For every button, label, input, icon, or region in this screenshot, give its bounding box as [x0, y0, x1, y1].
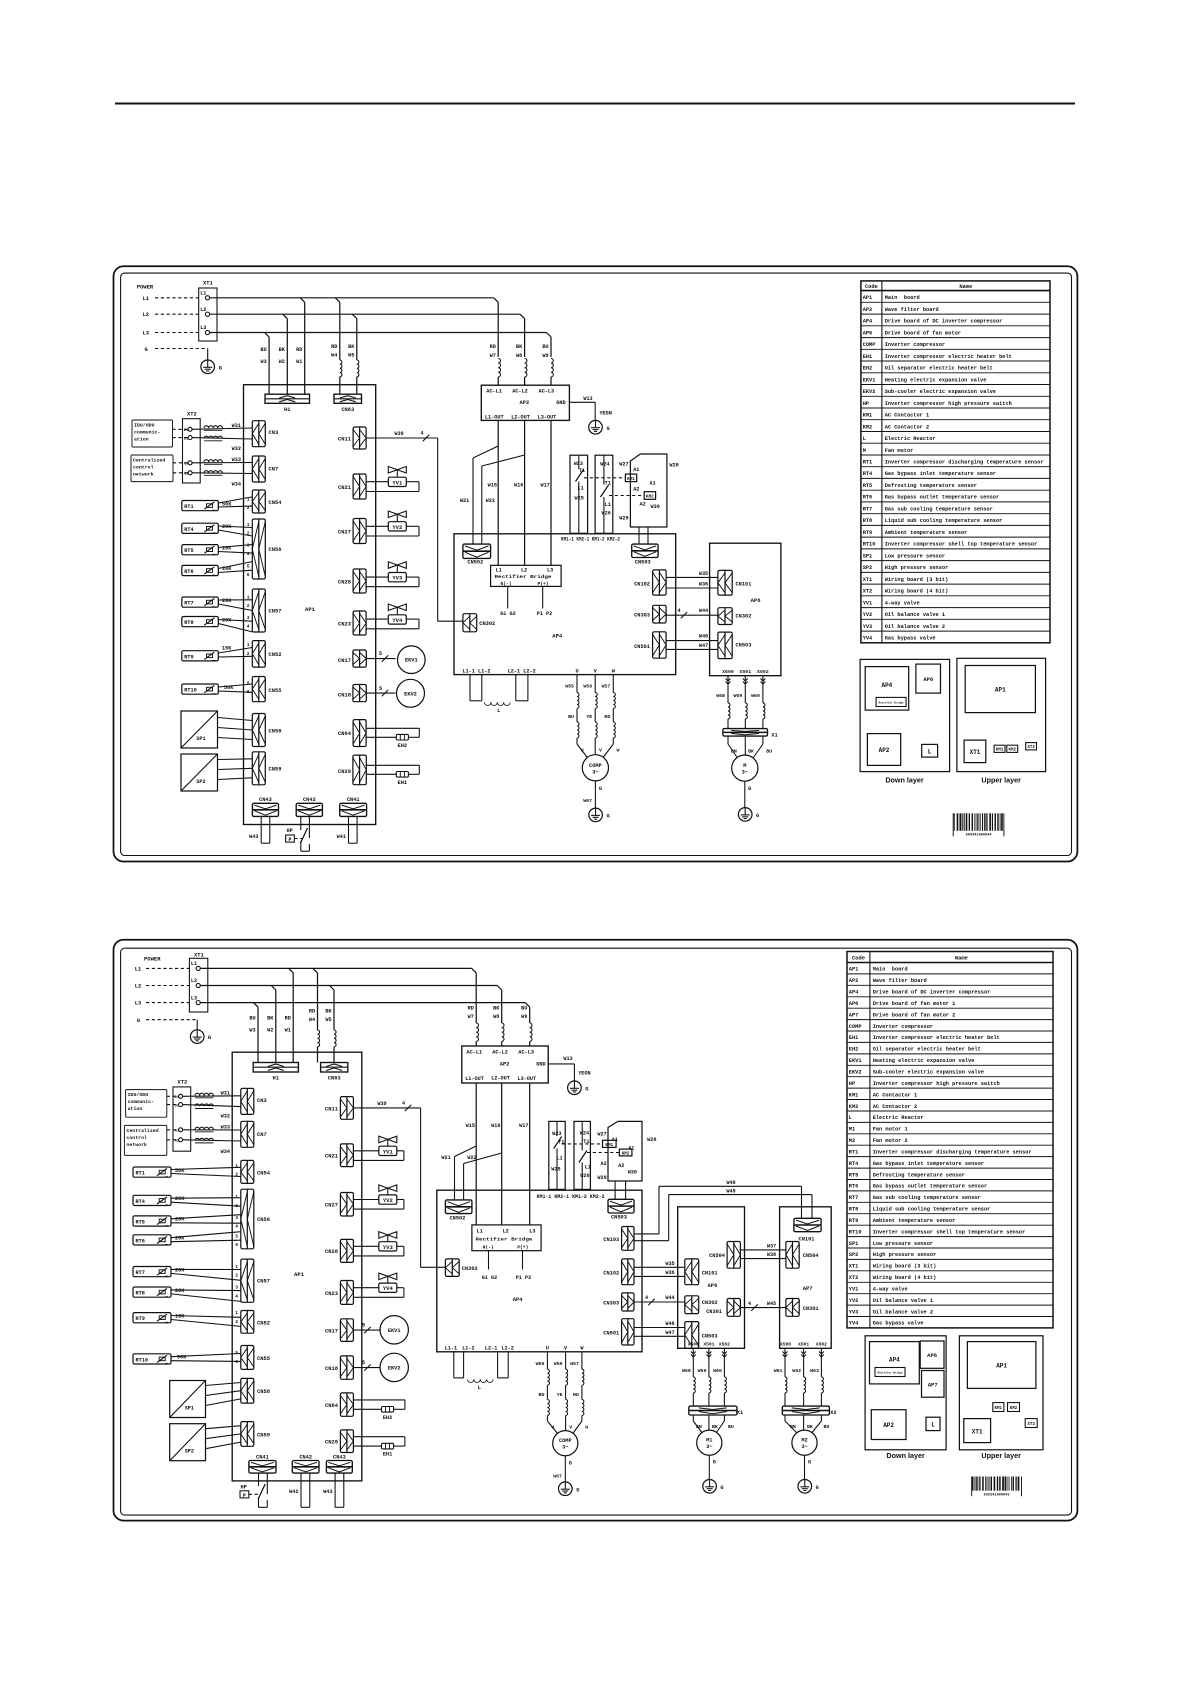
connector CN23 [338, 611, 366, 635]
svg-text:CN52: CN52 [257, 1320, 270, 1326]
svg-text:W57: W57 [570, 1361, 579, 1367]
svg-text:4: 4 [421, 431, 424, 437]
svg-text:BK: BK [325, 1008, 332, 1014]
svg-text:L2-1: L2-1 [508, 668, 520, 674]
svg-text:HP: HP [287, 828, 293, 834]
svg-text:Drive board of fan motor: Drive board of fan motor [885, 330, 961, 336]
svg-text:G: G [599, 786, 602, 792]
connector CN502 on AP4 [463, 544, 491, 565]
compressor ground W67 [583, 781, 610, 822]
svg-text:P: P [243, 1493, 246, 1499]
svg-text:AP2: AP2 [863, 307, 873, 313]
svg-text:W16: W16 [514, 482, 523, 488]
svg-text:W42: W42 [289, 1489, 298, 1495]
legend table 2 [847, 952, 1053, 1328]
svg-text:A2: A2 [601, 1161, 607, 1167]
svg-text:4: 4 [247, 624, 250, 630]
oil balance valve YV2 unit2 [353, 1185, 404, 1209]
connector CN3 unit2 [241, 1088, 267, 1114]
svg-text:Gas bypass outlet temperature: Gas bypass outlet temperature sensor [873, 1184, 987, 1190]
wires W35 W36 [666, 571, 718, 588]
svg-text:W8: W8 [516, 353, 522, 359]
svg-text:CN101: CN101 [799, 1236, 815, 1242]
svg-text:CN42: CN42 [299, 1454, 312, 1460]
fan motor2 ground [798, 1455, 819, 1493]
svg-text:W29: W29 [619, 515, 628, 521]
svg-text:W3: W3 [249, 1027, 255, 1033]
svg-text:EKV1: EKV1 [849, 1058, 862, 1064]
legend table 1 [861, 281, 1050, 643]
svg-text:G: G [756, 813, 759, 819]
svg-text:CN102: CN102 [634, 581, 650, 587]
svg-text:U: U [581, 748, 584, 754]
svg-text:EH1: EH1 [849, 1035, 859, 1041]
svg-text:SP1: SP1 [185, 1405, 194, 1411]
svg-text:CN27: CN27 [325, 1203, 338, 1209]
svg-text:Fan motor 1: Fan motor 1 [873, 1127, 908, 1133]
connector CN42 unit2 [292, 1454, 319, 1473]
svg-text:AC-L1: AC-L1 [486, 389, 502, 395]
svg-text:L3-OUT: L3-OUT [517, 1076, 536, 1082]
svg-text:RT4: RT4 [849, 1161, 859, 1167]
connector CN18 [338, 685, 366, 702]
svg-text:20K: 20K [175, 1288, 185, 1294]
thermistor RT6 20K [182, 562, 253, 578]
svg-text:W27: W27 [619, 462, 628, 468]
fan motor M [732, 755, 758, 781]
svg-text:RD: RD [490, 344, 496, 350]
connector CN101 on AP6 unit2 [685, 1259, 718, 1285]
svg-text:YEGN: YEGN [599, 410, 611, 416]
svg-text:YV2: YV2 [863, 612, 873, 618]
thermistor RT8 20K [182, 615, 253, 632]
svg-text:Inverter compressor dischargin: Inverter compressor discharging temperat… [873, 1149, 1032, 1155]
svg-text:CN504: CN504 [709, 1253, 726, 1259]
svg-text:HP: HP [241, 1484, 247, 1490]
connector CN56 unit2 [241, 1189, 270, 1249]
svg-text:CN52: CN52 [269, 652, 282, 658]
svg-text:L2-OUT: L2-OUT [511, 414, 530, 420]
svg-text:P(+): P(+) [538, 581, 549, 587]
svg-text:EH2: EH2 [849, 1047, 859, 1053]
svg-text:L2-1: L2-1 [485, 1346, 497, 1352]
wire W22 unit2 [464, 1153, 502, 1200]
svg-text:W56: W56 [554, 1361, 563, 1367]
svg-text:RT10: RT10 [863, 542, 876, 548]
connector CN11 [338, 427, 366, 449]
svg-text:network: network [126, 1142, 147, 1148]
svg-text:Defrosting temperature sensor: Defrosting temperature sensor [885, 483, 977, 489]
svg-text:G: G [713, 1460, 716, 1466]
cable W41 [337, 816, 357, 843]
svg-text:3: 3 [235, 1285, 238, 1291]
svg-text:W28: W28 [669, 463, 678, 469]
connector CN503 on AP4 [632, 527, 658, 566]
svg-text:5: 5 [247, 681, 250, 687]
svg-text:Electric Reactor: Electric Reactor [885, 436, 936, 442]
connector CN18 unit2 [325, 1356, 353, 1379]
svg-text:EKV2: EKV2 [404, 691, 417, 697]
svg-text:AC-L1: AC-L1 [467, 1049, 483, 1055]
low pressure sensor SP1 unit2 [170, 1381, 241, 1418]
svg-text:KM2: KM2 [863, 424, 873, 430]
barcode 636241000042 [972, 1477, 1022, 1498]
svg-text:W31: W31 [232, 423, 241, 429]
svg-text:communic-: communic- [134, 430, 160, 436]
filter coils W31 W32 [192, 423, 252, 452]
wire W13 to ground unit2 [548, 1056, 590, 1081]
svg-text:4: 4 [235, 1224, 238, 1230]
svg-text:L2: L2 [521, 567, 527, 573]
svg-text:Rectifier Bridge: Rectifier Bridge [495, 574, 552, 580]
svg-text:3~: 3~ [801, 1444, 807, 1450]
svg-text:W9: W9 [521, 1014, 527, 1020]
svg-text:SP1: SP1 [196, 736, 205, 742]
svg-text:P(+): P(+) [517, 1244, 528, 1250]
svg-text:2: 2 [247, 603, 250, 609]
svg-text:W16: W16 [491, 1123, 500, 1129]
noise filter H1 [265, 394, 310, 413]
svg-text:HP: HP [849, 1081, 855, 1087]
svg-text:Upper layer: Upper layer [981, 1451, 1021, 1460]
svg-text:Electric Reactor: Electric Reactor [873, 1115, 924, 1121]
connector CN103 [603, 1227, 634, 1251]
layout XT2 unit2 [1025, 1419, 1037, 1428]
svg-text:YV1: YV1 [849, 1287, 859, 1293]
connector CN503 on AP6 unit2 [685, 1322, 718, 1349]
svg-text:W47: W47 [699, 643, 708, 649]
label POWER [137, 284, 154, 291]
svg-text:RT9: RT9 [863, 530, 873, 536]
svg-text:KM2: KM2 [849, 1104, 859, 1110]
svg-text:W46: W46 [699, 634, 708, 640]
thermistor RT6 20K unit2 [133, 1232, 241, 1248]
svg-text:CN64: CN64 [325, 1403, 339, 1409]
layout AP7 [922, 1371, 945, 1398]
caption Down layer unit2 [886, 1451, 925, 1460]
wire L2 phase 2 [200, 986, 501, 1063]
Centralized control network box unit2 [124, 1125, 178, 1155]
svg-text:3: 3 [235, 1215, 238, 1221]
connector CN102 unit2 [603, 1259, 634, 1285]
reactor L unit2 [454, 1352, 508, 1391]
layout AP2 unit2 [871, 1410, 906, 1440]
svg-text:AP1: AP1 [849, 967, 859, 973]
svg-text:KM2: KM2 [1010, 1407, 1018, 1411]
svg-text:YE: YE [557, 1392, 563, 1398]
svg-text:CN501: CN501 [634, 644, 650, 650]
svg-text:Gas bypass outlet temperature: Gas bypass outlet temperature sensor [885, 495, 999, 501]
svg-text:W47: W47 [665, 1330, 674, 1336]
svg-text:RT5: RT5 [863, 483, 873, 489]
svg-text:L1: L1 [191, 961, 197, 967]
svg-text:L1-1: L1-1 [445, 1346, 457, 1352]
svg-text:XT2: XT2 [1027, 1423, 1035, 1427]
rectifier bridge [491, 565, 561, 587]
thermistor RT4 20K unit2 [133, 1194, 241, 1209]
svg-text:W5: W5 [325, 1017, 331, 1023]
svg-text:AP1: AP1 [294, 1271, 305, 1278]
svg-text:BU: BU [766, 748, 772, 754]
connector CN28 unit2 [325, 1239, 353, 1262]
terminals X500 X501 X502 [722, 669, 769, 675]
svg-text:Drive board of DC inverter com: Drive board of DC inverter compressor [885, 319, 1003, 325]
connector CN17 unit2 [325, 1319, 353, 1342]
upper layer layout box [957, 658, 1046, 771]
svg-text:BU: BU [539, 1392, 545, 1398]
svg-text:CN503: CN503 [635, 560, 651, 566]
svg-text:X502: X502 [757, 669, 769, 675]
svg-text:RT9: RT9 [849, 1218, 859, 1224]
svg-text:AC Contactor 1: AC Contactor 1 [873, 1092, 918, 1098]
fan1 wires W58 W59 W60 [682, 1348, 727, 1406]
svg-text:W55: W55 [536, 1361, 545, 1367]
svg-text:KM2: KM2 [646, 495, 654, 500]
node L1 input 2 [135, 966, 190, 972]
svg-text:W17: W17 [519, 1123, 528, 1129]
svg-text:4: 4 [678, 608, 681, 614]
svg-text:W59: W59 [733, 693, 742, 699]
svg-text:AP6: AP6 [923, 676, 933, 683]
svg-text:X1: X1 [737, 1410, 743, 1416]
svg-text:AP1: AP1 [863, 295, 873, 301]
svg-text:W31: W31 [221, 1091, 230, 1097]
svg-text:CN102: CN102 [603, 1270, 619, 1276]
caption Down layer [885, 776, 924, 785]
connector CN11 unit2 [325, 1097, 353, 1120]
svg-text:Wave filter board: Wave filter board [873, 978, 927, 984]
svg-text:CN28: CN28 [338, 580, 351, 586]
svg-text:M2: M2 [849, 1138, 855, 1144]
connector CN42 [296, 797, 322, 816]
connector CN57 [252, 589, 281, 632]
svg-text:X1: X1 [771, 732, 777, 738]
connector CN501 [634, 632, 666, 658]
svg-text:YV1: YV1 [383, 1148, 394, 1155]
connector CN303 unit2 [603, 1293, 634, 1311]
svg-text:Down layer: Down layer [885, 776, 924, 785]
connector CN17 [338, 650, 366, 667]
thermistor RT7 20K unit2 [133, 1264, 241, 1280]
svg-text:Oil balance valve 1: Oil balance valve 1 [885, 612, 945, 618]
terminal block XT1 [199, 281, 217, 342]
svg-text:6: 6 [247, 572, 250, 578]
svg-text:CN63: CN63 [341, 407, 354, 413]
svg-text:CN302: CN302 [462, 1266, 478, 1272]
svg-text:CN17: CN17 [338, 658, 351, 664]
svg-text:AC Contactor 2: AC Contactor 2 [873, 1104, 918, 1110]
connector CN102 [634, 570, 666, 595]
svg-text:CN302: CN302 [736, 614, 752, 620]
svg-text:communic-: communic- [128, 1099, 154, 1105]
connector CN302 on AP4 [463, 614, 495, 632]
connector CN301 on AP6 [706, 1299, 740, 1317]
svg-text:CN101: CN101 [702, 1270, 718, 1276]
thermistor RT4 20K [182, 522, 253, 537]
svg-text:AP2: AP2 [849, 978, 859, 984]
svg-text:CN303: CN303 [603, 1301, 619, 1307]
svg-text:COMP: COMP [863, 342, 876, 348]
wire labels BU W3 BK W2 RD W1 unit2 [249, 1015, 290, 1033]
wires L1-OUT L2-OUT L3-OUT W15 W16 W17 [488, 420, 551, 565]
svg-text:HP: HP [863, 401, 869, 407]
svg-text:W59: W59 [698, 1368, 707, 1374]
svg-text:4: 4 [402, 1101, 405, 1107]
svg-text:CN55: CN55 [257, 1356, 270, 1362]
svg-text:RT6: RT6 [863, 495, 873, 501]
svg-text:W9: W9 [542, 353, 548, 359]
svg-text:W60: W60 [713, 1368, 722, 1374]
svg-text:RT7: RT7 [136, 1270, 145, 1276]
svg-text:M1: M1 [706, 1438, 712, 1444]
expansion valve EKV1 unit2 [353, 1316, 408, 1344]
wire labels RD W4 BK W5 unit2 [309, 1008, 336, 1062]
Centralized control network box [131, 455, 188, 482]
svg-text:U: U [546, 1346, 549, 1352]
gas bypass valve YV4 [366, 604, 419, 629]
wire W39 [366, 431, 463, 622]
svg-text:BU: BU [249, 1015, 255, 1021]
svg-text:Inverter compressor shell top: Inverter compressor shell top temperatur… [885, 542, 1038, 548]
svg-text:20K: 20K [175, 1196, 185, 1202]
svg-text:X501: X501 [798, 1341, 809, 1347]
svg-text:RT8: RT8 [136, 1291, 145, 1297]
svg-text:RD: RD [604, 714, 610, 720]
svg-text:W61: W61 [774, 1368, 783, 1374]
svg-text:L1: L1 [585, 1165, 591, 1171]
4-way valve YV1 [366, 467, 419, 492]
connector CN55 [252, 677, 281, 702]
svg-text:W33: W33 [221, 1124, 230, 1130]
heater belt EH2 [366, 728, 419, 749]
svg-text:W58: W58 [682, 1368, 691, 1374]
thermistor RT10 50K [182, 681, 253, 696]
svg-text:W45: W45 [767, 1301, 776, 1307]
svg-text:YV3: YV3 [383, 1244, 394, 1251]
svg-text:CN7: CN7 [257, 1132, 267, 1138]
svg-text:AP7: AP7 [849, 1012, 859, 1018]
svg-text:W57: W57 [601, 684, 610, 690]
svg-text:A1: A1 [633, 467, 639, 473]
oil balance valve YV2 [366, 511, 419, 536]
svg-text:AP2: AP2 [520, 400, 530, 406]
svg-text:BN: BN [731, 748, 737, 754]
svg-text:control: control [133, 465, 154, 471]
svg-text:W36: W36 [665, 1270, 674, 1276]
svg-text:W21: W21 [460, 498, 469, 504]
svg-text:AC-L3: AC-L3 [539, 389, 555, 395]
svg-text:RT9: RT9 [136, 1316, 145, 1322]
svg-text:L1: L1 [477, 1229, 483, 1235]
svg-text:Oil balance valve 2: Oil balance valve 2 [873, 1309, 933, 1315]
svg-text:CN41: CN41 [256, 1454, 269, 1460]
svg-text:YV3: YV3 [863, 624, 873, 630]
svg-text:RT4: RT4 [184, 527, 193, 533]
contactor wiring KM1 KM2 unit2 [549, 1121, 657, 1189]
svg-text:G: G [145, 347, 148, 353]
fan motor1 leads BN BK BU [693, 1415, 734, 1433]
barcode 600341000044 [953, 813, 1004, 837]
svg-text:RT6: RT6 [136, 1238, 145, 1244]
svg-text:A1: A1 [650, 480, 656, 486]
svg-text:KM1: KM1 [996, 749, 1004, 753]
svg-text:Ambient temperature sensor: Ambient temperature sensor [873, 1218, 956, 1224]
svg-text:CN56: CN56 [269, 547, 282, 553]
svg-text:CN29: CN29 [338, 769, 351, 775]
svg-text:W: W [585, 1425, 588, 1431]
svg-text:G: G [208, 1035, 211, 1041]
AP4 output terminals unit2 [445, 1346, 585, 1352]
svg-text:RT1: RT1 [136, 1171, 145, 1177]
svg-text:CN11: CN11 [338, 437, 351, 443]
label KM1-1 KM2-1 KM1-2 KM2-2 unit2 [537, 1194, 605, 1200]
svg-text:L1-2: L1-2 [478, 668, 490, 674]
svg-text:600341000044: 600341000044 [966, 833, 993, 837]
svg-text:YV3: YV3 [392, 575, 403, 582]
node G input [145, 347, 208, 353]
svg-text:Oil separator electric heater: Oil separator electric heater belt [873, 1047, 981, 1053]
wave filter board AP2 [481, 385, 569, 420]
connector CN57 unit2 [241, 1259, 270, 1302]
svg-text:RT8: RT8 [849, 1207, 859, 1213]
connector CN41 unit2 [249, 1454, 276, 1473]
svg-text:RT1: RT1 [849, 1149, 859, 1155]
layout XT1 [964, 740, 986, 763]
svg-text:W26: W26 [602, 510, 611, 516]
svg-text:W4: W4 [331, 353, 337, 359]
svg-text:W2: W2 [267, 1027, 273, 1033]
connector CN58 unit2 [241, 1378, 270, 1403]
high pressure sensor SP2 [181, 754, 252, 791]
svg-text:G1 G2: G1 G2 [482, 1275, 498, 1281]
svg-text:Centralized: Centralized [126, 1128, 158, 1134]
svg-text:RT6: RT6 [184, 569, 193, 575]
svg-text:W35: W35 [699, 571, 708, 577]
svg-text:YV4: YV4 [849, 1321, 859, 1327]
svg-text:BK: BK [267, 1015, 274, 1021]
svg-text:Liquid sub cooling temperature: Liquid sub cooling temperature sensor [873, 1207, 991, 1213]
svg-text:Centralized: Centralized [133, 458, 165, 464]
svg-text:Sub-cooler electric expansion: Sub-cooler electric expansion valve [873, 1070, 984, 1076]
fan motor1 ground [703, 1455, 724, 1493]
svg-text:CN502: CN502 [450, 1216, 466, 1222]
svg-text:W4: W4 [309, 1017, 315, 1023]
thermistor RT9 15K [182, 642, 253, 661]
svg-text:AP4: AP4 [849, 990, 859, 996]
svg-text:W38: W38 [767, 1252, 776, 1258]
connector CN101 block on AP7 [794, 1218, 821, 1242]
svg-text:L2: L2 [200, 307, 206, 313]
svg-text:SP1: SP1 [863, 553, 873, 559]
layout AP6 unit2 [920, 1341, 944, 1368]
svg-text:CN23: CN23 [338, 622, 351, 628]
caption Upper layer [981, 776, 1021, 785]
fan motor M1 [697, 1430, 722, 1455]
wire L1 phase [210, 298, 499, 394]
svg-text:KM1: KM1 [627, 477, 635, 482]
filter coils W33 W34 [192, 457, 252, 488]
svg-text:ation: ation [134, 437, 149, 443]
svg-text:1: 1 [235, 1310, 238, 1316]
caption Upper layer unit2 [981, 1451, 1021, 1460]
connector CN503 on AP4 unit2 [608, 1181, 634, 1221]
layout AP1 unit2 [967, 1342, 1036, 1389]
svg-text:BN: BN [790, 1424, 796, 1430]
wire W39 unit2 [353, 1101, 445, 1268]
svg-text:AP6: AP6 [927, 1352, 937, 1359]
svg-text:KM1-1 KM2-1 KM1-2 KM2-2: KM1-1 KM2-1 KM1-2 KM2-2 [561, 537, 620, 543]
svg-text:W27: W27 [597, 1131, 606, 1137]
